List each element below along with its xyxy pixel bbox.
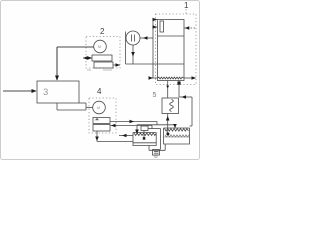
svg-text:4: 4 bbox=[97, 87, 102, 96]
svg-text:5: 5 bbox=[153, 92, 157, 99]
svg-text:2: 2 bbox=[100, 27, 105, 36]
svg-text:M: M bbox=[98, 45, 101, 49]
svg-text:3: 3 bbox=[43, 87, 48, 98]
svg-text:1: 1 bbox=[184, 1, 189, 10]
svg-text:M: M bbox=[97, 106, 100, 110]
